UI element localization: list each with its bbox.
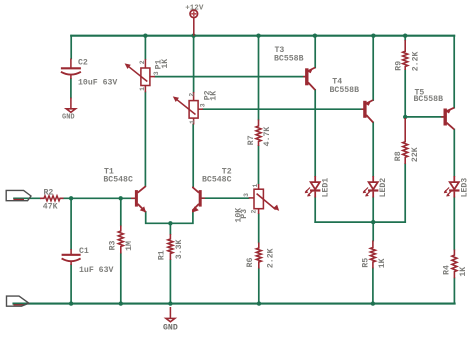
svg-text:R6: R6 — [246, 258, 255, 268]
svg-text:BC558B: BC558B — [330, 86, 360, 95]
svg-text:3: 3 — [153, 71, 160, 75]
svg-text:1: 1 — [139, 87, 146, 91]
svg-text:R8: R8 — [394, 151, 403, 161]
svg-text:1: 1 — [252, 184, 259, 188]
svg-text:1K: 1K — [459, 267, 468, 277]
svg-text:R1: R1 — [158, 250, 167, 260]
svg-text:R5: R5 — [361, 258, 370, 268]
svg-text:2: 2 — [188, 93, 195, 97]
svg-text:R4: R4 — [443, 265, 452, 275]
svg-text:1uF 63V: 1uF 63V — [79, 266, 113, 275]
svg-text:22K: 22K — [411, 147, 420, 162]
svg-text:GND: GND — [62, 114, 75, 122]
svg-text:10uF 63V: 10uF 63V — [78, 79, 117, 88]
svg-text:4.7K: 4.7K — [263, 127, 272, 147]
svg-text:1K: 1K — [378, 258, 387, 268]
svg-text:C2: C2 — [78, 59, 88, 68]
svg-text:3.3K: 3.3K — [175, 239, 184, 259]
svg-text:2.2K: 2.2K — [266, 248, 275, 268]
svg-text:R7: R7 — [247, 135, 256, 145]
svg-text:R3: R3 — [109, 241, 118, 251]
svg-text:1K: 1K — [161, 59, 170, 69]
svg-text:LED2: LED2 — [379, 178, 388, 198]
svg-text:LED1: LED1 — [322, 178, 331, 198]
svg-text:BC548C: BC548C — [202, 175, 232, 184]
svg-text:BC558B: BC558B — [274, 55, 304, 64]
svg-text:1: 1 — [189, 120, 196, 124]
svg-text:C1: C1 — [79, 247, 89, 256]
svg-text:R2: R2 — [44, 188, 54, 197]
svg-text:2: 2 — [251, 210, 258, 214]
svg-text:BC548C: BC548C — [103, 175, 133, 184]
svg-text:BC558B: BC558B — [414, 95, 444, 104]
svg-text:2: 2 — [139, 60, 146, 64]
svg-text:1K: 1K — [209, 91, 218, 101]
svg-text:3: 3 — [243, 193, 250, 197]
svg-text:1M: 1M — [125, 241, 134, 251]
svg-text:P3: P3 — [240, 209, 249, 219]
svg-text:GND: GND — [163, 324, 178, 333]
svg-text:R9: R9 — [395, 61, 404, 71]
svg-text:LED3: LED3 — [460, 178, 469, 198]
svg-text:2.2K: 2.2K — [412, 51, 421, 71]
svg-text:+12V: +12V — [185, 4, 204, 12]
svg-text:3: 3 — [199, 103, 206, 107]
svg-text:47K: 47K — [43, 203, 58, 212]
